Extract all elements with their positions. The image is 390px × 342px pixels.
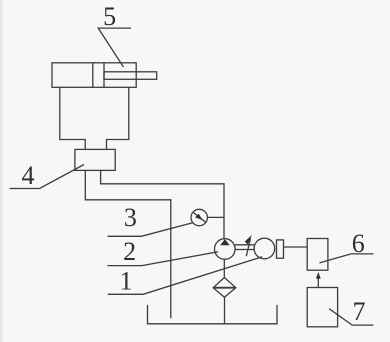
filter diamond (213, 278, 236, 298)
svg-text:2: 2 (123, 237, 136, 266)
leader line 5 (98, 28, 131, 67)
cylinder piston line right (103, 63, 105, 88)
svg-text:4: 4 (22, 161, 35, 190)
coupling block (277, 240, 284, 258)
filter element line (213, 287, 236, 289)
pump triangle (output up) (220, 239, 230, 245)
wire: block4 left port to tank return (85, 170, 171, 318)
svg-text:1: 1 (120, 267, 133, 296)
wire: gauge to pump line (207, 216, 224, 218)
cylinder U1 body (52, 63, 136, 88)
mount bracket under cylinder (60, 87, 129, 149)
tank (148, 305, 278, 324)
manifold block 4 (75, 149, 115, 170)
pressure gauge 3 (191, 209, 207, 225)
cylinder piston line left (92, 63, 94, 88)
gauge needle (193, 212, 205, 222)
wire: coupling to box 6 (284, 246, 308, 248)
leader line 2 (108, 252, 219, 266)
motor 1 (254, 238, 275, 259)
left scan edge band (0, 0, 3, 342)
svg-text:7: 7 (353, 297, 366, 326)
box 7 (307, 288, 337, 327)
svg-text:5: 5 (103, 2, 116, 31)
leader line 4 (10, 165, 84, 189)
wire: pump to filter (223, 259, 225, 277)
cylinder rod (104, 72, 157, 80)
leader line 3 (108, 223, 194, 237)
box 6 (307, 239, 328, 271)
pump 2 (215, 239, 236, 260)
wire: block4 right port to pump (101, 170, 224, 238)
shaft pump-motor (235, 244, 254, 246)
leader line 7 (329, 309, 373, 325)
leader line 6 (320, 254, 374, 263)
leader line 1 (108, 257, 262, 295)
arrow from box 7 up to box 6 (317, 274, 319, 288)
svg-text:6: 6 (352, 229, 365, 258)
wire: filter to tank (224, 297, 226, 323)
svg-text:3: 3 (124, 203, 137, 232)
shaft variable arrow (246, 239, 250, 257)
